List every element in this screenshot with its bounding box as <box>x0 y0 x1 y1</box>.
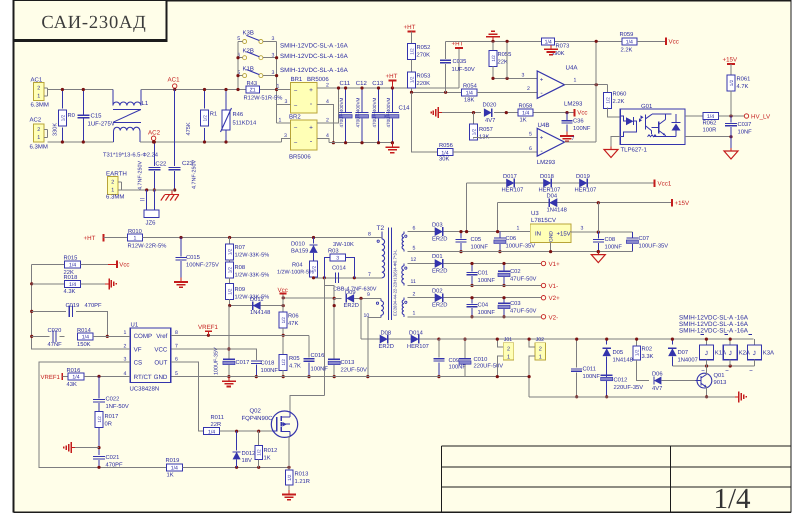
wire U3 out up to +15V row <box>597 203 599 232</box>
resistor R015 22K <box>32 263 65 265</box>
svg-text:R073: R073 <box>556 43 570 50</box>
capacitor C05 100NF <box>460 232 462 239</box>
svg-text:47UF-50V: 47UF-50V <box>510 308 537 315</box>
capacitor C021 470PF <box>93 455 105 457</box>
wire U3 out row <box>571 231 632 233</box>
wire relay left feed column <box>237 42 239 90</box>
ground left of D020 row (red) <box>438 112 442 114</box>
svg-text:1/2W-33K-5%: 1/2W-33K-5% <box>235 272 270 279</box>
svg-text:+: + <box>540 136 544 142</box>
capacitor C017 100UF-35V <box>228 306 230 359</box>
resistor R062 100R <box>703 113 719 120</box>
node V2+ <box>541 296 545 300</box>
svg-text:47NF: 47NF <box>48 342 63 348</box>
svg-text:K3B: K3B <box>243 30 254 37</box>
svg-text:100NF: 100NF <box>573 125 591 132</box>
svg-text:R062: R062 <box>703 120 717 127</box>
resistor R053 220K <box>411 60 413 73</box>
resistor R055 22K <box>492 41 494 51</box>
resistor R02 3.3K <box>636 339 638 346</box>
svg-text:C011: C011 <box>583 366 596 373</box>
svg-text:C04: C04 <box>478 302 489 309</box>
svg-text:R04: R04 <box>292 262 303 269</box>
svg-text:470PF: 470PF <box>85 302 103 309</box>
svg-text:10NF: 10NF <box>738 129 753 136</box>
wire R053 junction down to R056 row <box>412 92 438 152</box>
svg-text:10: 10 <box>364 313 370 319</box>
svg-text:1/2: 1/2 <box>606 97 611 104</box>
svg-text:9: 9 <box>367 292 370 298</box>
capacitor C015 100NF-275V <box>180 238 182 257</box>
svg-text:GND: GND <box>549 231 555 243</box>
svg-text:V1-: V1- <box>549 283 559 290</box>
svg-text:D014: D014 <box>409 329 424 336</box>
svg-text:100NF: 100NF <box>311 366 329 373</box>
capacitor C15 1UF-275V <box>82 90 84 116</box>
svg-text:1N4148: 1N4148 <box>613 357 633 364</box>
svg-text:САИ-230АД: САИ-230АД <box>41 13 146 33</box>
svg-text:R053: R053 <box>417 73 431 80</box>
svg-text:511KD14: 511KD14 <box>233 121 258 127</box>
wire U4B pin5 row <box>474 137 538 140</box>
svg-text:3: 3 <box>272 70 275 76</box>
svg-text:R056: R056 <box>439 142 453 149</box>
svg-text:470UF-400VM: 470UF-400VM <box>386 97 391 127</box>
svg-text:22K: 22K <box>498 59 508 66</box>
capacitor C08 100NF <box>597 232 599 238</box>
resistor R08 1/2W-33K-5% <box>229 260 231 263</box>
resistor R1 475K <box>204 90 206 109</box>
svg-text:L1: L1 <box>142 100 149 107</box>
power Vcc at R015 <box>108 263 117 265</box>
svg-text:1K: 1K <box>264 456 271 462</box>
zener D020 4V7 <box>484 108 492 116</box>
wire U4A pin2 row <box>477 91 537 93</box>
svg-text:K3A: K3A <box>763 350 774 357</box>
svg-text:2: 2 <box>507 346 510 352</box>
node V1- <box>541 283 545 287</box>
svg-text:C013: C013 <box>341 359 355 366</box>
svg-text:D04: D04 <box>547 192 558 199</box>
svg-text:1/2: 1/2 <box>491 55 496 62</box>
svg-text:1: 1 <box>517 226 520 232</box>
wire relay coil bottom row <box>672 365 754 367</box>
svg-text:3: 3 <box>522 72 525 78</box>
svg-text:6: 6 <box>175 356 178 362</box>
svg-text:22UF-50V: 22UF-50V <box>341 367 368 374</box>
resistor R05 4.7K <box>279 354 287 370</box>
svg-text:1: 1 <box>279 117 282 123</box>
svg-text:EC2834-44-22-22H13(6)4-Ф0.7*3-: EC2834-44-22-22H13(6)4-Ф0.7*3-L <box>392 249 397 316</box>
wire BR1 pin2 to +HT rail <box>317 87 459 89</box>
svg-text:R061: R061 <box>737 76 751 83</box>
capacitor C012 220UF-35V <box>601 374 613 376</box>
capacitor C14 470UF-400VM <box>391 88 393 113</box>
svg-text:~: ~ <box>294 102 298 109</box>
svg-text:VF: VF <box>134 347 142 354</box>
svg-text:J: J <box>753 350 756 357</box>
wire T2 pin11 row <box>408 285 542 287</box>
capacitor C019 470PF <box>32 310 66 312</box>
wire T2 pin6 row / D03 input <box>408 231 531 233</box>
ground above R055 (red) <box>492 37 494 42</box>
svg-text:HER107: HER107 <box>575 187 597 194</box>
wire T2 pin7 row <box>314 277 382 279</box>
svg-text:7: 7 <box>175 343 178 349</box>
svg-text:1.21R: 1.21R <box>295 478 310 485</box>
svg-text:4.7NF-250V: 4.7NF-250V <box>192 160 198 189</box>
svg-text:1/2: 1/2 <box>228 266 233 273</box>
svg-text:OUT: OUT <box>154 360 167 367</box>
svg-text:D018: D018 <box>540 173 554 180</box>
svg-text:LM293: LM293 <box>537 159 556 166</box>
resistor R073 390K <box>542 38 555 45</box>
svg-text:4.3K: 4.3K <box>64 288 76 295</box>
svg-text:11: 11 <box>411 279 416 285</box>
svg-text:FQP4N90C: FQP4N90C <box>242 415 274 422</box>
svg-text:100NF: 100NF <box>478 309 496 316</box>
svg-text:D010: D010 <box>291 241 305 248</box>
svg-text:1: 1 <box>277 84 280 90</box>
svg-text:D03: D03 <box>432 221 443 228</box>
zener D012 18V <box>236 431 238 450</box>
svg-text:18V: 18V <box>242 457 252 464</box>
capacitor C07 100UF-35V <box>631 232 633 237</box>
wire D011 row <box>230 305 284 307</box>
wire jog to Vcc column <box>324 285 334 298</box>
svg-text:1/2: 1/2 <box>409 76 414 83</box>
wire T2 pin12 row <box>408 263 542 265</box>
svg-text:2: 2 <box>37 127 40 133</box>
svg-text:ER2D: ER2D <box>432 236 447 243</box>
svg-text:470PF: 470PF <box>106 462 124 469</box>
svg-text:D011: D011 <box>250 296 263 303</box>
svg-text:D019: D019 <box>576 173 590 180</box>
svg-text:6.3MM: 6.3MM <box>30 144 48 151</box>
svg-text:1/4: 1/4 <box>69 282 76 288</box>
resistor R06 47K <box>279 312 287 328</box>
svg-text:ER2D: ER2D <box>432 302 447 309</box>
svg-text:4.7NF-250V: 4.7NF-250V <box>138 161 144 190</box>
svg-text:R46: R46 <box>233 111 244 118</box>
power +HT at C13 <box>391 81 393 89</box>
svg-text:SMIH-12VDC-SL-A -16A: SMIH-12VDC-SL-A -16A <box>280 43 349 50</box>
svg-text:2: 2 <box>326 82 329 88</box>
svg-text:150K: 150K <box>77 341 91 348</box>
svg-text:R05: R05 <box>289 355 300 362</box>
node AC1 <box>173 84 177 88</box>
svg-text:2: 2 <box>37 86 40 92</box>
svg-text:6: 6 <box>529 146 532 152</box>
resistor R059 2.2K <box>622 38 637 45</box>
svg-text:3.3K: 3.3K <box>642 353 654 360</box>
svg-text:CS: CS <box>134 360 143 367</box>
svg-text:7: 7 <box>572 136 575 142</box>
svg-text:1/4: 1/4 <box>522 111 529 117</box>
svg-text:R060: R060 <box>613 91 627 98</box>
svg-text:Z1: Z1 <box>250 88 256 94</box>
svg-text:1/2: 1/2 <box>287 474 292 481</box>
svg-text:C035: C035 <box>453 58 467 65</box>
capacitor C013 22UF-50V <box>333 298 335 358</box>
svg-text:2: 2 <box>527 86 530 92</box>
svg-text:330K: 330K <box>53 123 59 136</box>
relay coil K3A <box>753 339 755 345</box>
svg-text:5: 5 <box>413 245 416 251</box>
wire opto emitter out to C037 column <box>685 136 731 138</box>
svg-text:2.2K: 2.2K <box>621 47 633 54</box>
svg-text:VREF1: VREF1 <box>41 374 61 381</box>
svg-text:100NF: 100NF <box>605 244 623 251</box>
svg-text:C021: C021 <box>106 454 120 461</box>
svg-text:1/2W-33K-5%: 1/2W-33K-5% <box>235 252 270 259</box>
wire AC1 row from connector to L1 <box>48 89 113 91</box>
ground below R013 (red) <box>288 490 290 495</box>
wire OUT down to gate row <box>171 362 204 431</box>
svg-text:R02: R02 <box>642 346 653 353</box>
T2 primary winding 8-7 <box>381 232 383 239</box>
svg-text:~: ~ <box>294 140 298 147</box>
diode D09 ER2D <box>334 297 341 299</box>
relay coil K2A <box>729 339 731 345</box>
resistor R07 1/2W-33K-5% <box>229 238 231 245</box>
T2 secondary winding 12-11 <box>403 264 405 266</box>
wire D020 row <box>442 112 481 114</box>
wire opto cathode to ground <box>611 137 620 147</box>
capacitor C12 470UF-400VM <box>361 88 363 113</box>
svg-text:100UF-35V: 100UF-35V <box>506 243 536 250</box>
svg-text:3W-10K: 3W-10K <box>333 241 354 248</box>
svg-text:C01: C01 <box>478 270 489 277</box>
svg-text:12: 12 <box>411 257 417 263</box>
ground below C037 (red triangle) <box>730 148 732 151</box>
svg-text:1/4: 1/4 <box>69 263 76 269</box>
diode D03 ER2D <box>435 227 443 236</box>
wire Q01 emitter to gnd rail <box>706 387 708 397</box>
svg-text:1/4: 1/4 <box>626 39 633 45</box>
svg-text:C11: C11 <box>340 80 351 87</box>
svg-text:1/4: 1/4 <box>713 483 751 515</box>
svg-text:VCC: VCC <box>154 347 168 354</box>
svg-text:J: J <box>729 350 732 357</box>
diode D01 ER2D <box>435 259 443 268</box>
capacitor C22 4.7NF-250V <box>153 142 155 166</box>
svg-text:9013: 9013 <box>714 379 727 386</box>
svg-text:R011: R011 <box>211 414 224 421</box>
svg-text:D017: D017 <box>503 173 517 180</box>
svg-text:22R: 22R <box>211 421 222 428</box>
svg-text:1/4: 1/4 <box>208 429 215 435</box>
T2 secondary winding 6-5 <box>403 232 405 234</box>
svg-text:1/2: 1/2 <box>409 48 414 55</box>
ground right of R018 (red) <box>105 283 109 285</box>
svg-text:C08: C08 <box>605 236 616 243</box>
svg-text:R058: R058 <box>519 103 533 110</box>
capacitor C020 47NF <box>32 335 50 337</box>
ground below C14 (red) <box>391 143 393 148</box>
svg-text:R012: R012 <box>264 447 278 454</box>
svg-text:1: 1 <box>413 311 416 317</box>
svg-text:1/2: 1/2 <box>281 359 286 366</box>
power Vcc1 <box>654 179 656 187</box>
T2 aux winding 9-10 <box>380 299 382 301</box>
svg-text:Vcc: Vcc <box>577 110 587 117</box>
svg-text:U4B: U4B <box>538 122 550 129</box>
svg-text:~: ~ <box>294 87 298 94</box>
power +HT feeding R052 <box>408 31 416 33</box>
svg-text:30K: 30K <box>439 156 449 163</box>
wire +HT rail right end up to +HT bar <box>458 48 460 88</box>
svg-text:V1+: V1+ <box>549 261 561 268</box>
svg-text:1/2: 1/2 <box>281 317 286 324</box>
svg-text:4: 4 <box>326 133 329 139</box>
svg-text:100NF: 100NF <box>471 244 489 251</box>
resistor R060 2.2K <box>607 85 609 94</box>
svg-text:R08: R08 <box>235 264 246 271</box>
svg-text:R055: R055 <box>498 51 512 58</box>
capacitor C02 47UF-50V <box>503 264 505 271</box>
wire R073 tap down to pin3 row <box>506 41 508 78</box>
svg-text:VREF1: VREF1 <box>198 324 219 331</box>
svg-text:1/2: 1/2 <box>257 449 262 456</box>
svg-text:ER2D: ER2D <box>379 343 394 350</box>
svg-text:1/4: 1/4 <box>545 39 552 45</box>
svg-text:Vcc: Vcc <box>669 39 679 46</box>
wire T2 pin10 to gnd rail <box>368 318 381 377</box>
node V1+ <box>541 261 545 265</box>
page border frame <box>13 0 15 513</box>
svg-text:C012: C012 <box>614 377 628 384</box>
svg-text:C014: C014 <box>332 264 347 271</box>
svg-text:J: J <box>705 350 708 357</box>
svg-text:C05: C05 <box>471 236 482 243</box>
svg-text:AC1: AC1 <box>168 77 181 84</box>
svg-text:C36: C36 <box>573 118 584 125</box>
wire snubber to drain column <box>323 278 325 396</box>
svg-text:D05: D05 <box>613 349 624 356</box>
svg-text:100R: 100R <box>703 127 717 134</box>
svg-text:IN: IN <box>535 231 541 238</box>
svg-text:Vref: Vref <box>156 333 167 340</box>
svg-text:R12W-22R-5%: R12W-22R-5% <box>128 242 167 249</box>
resistor R04 1/2W-100R-5% <box>310 261 318 277</box>
svg-text:HV_LV: HV_LV <box>751 113 771 120</box>
svg-text:3: 3 <box>284 133 287 139</box>
svg-text:4V7: 4V7 <box>485 118 495 124</box>
svg-text:BR5006: BR5006 <box>289 153 311 160</box>
svg-text:1: 1 <box>574 78 577 84</box>
svg-text:D07: D07 <box>678 349 689 356</box>
svg-text:GND: GND <box>154 374 168 381</box>
resistor R013 1.21R <box>285 470 293 485</box>
T2 core <box>387 228 389 321</box>
svg-text:1/2W-100R-5%: 1/2W-100R-5% <box>277 270 314 276</box>
diode D010 BA159 <box>313 238 315 244</box>
resistor R057 13K <box>473 113 475 126</box>
chassis ground (red) <box>171 191 173 195</box>
svg-text:R059: R059 <box>620 31 634 38</box>
svg-text:+HT: +HT <box>386 73 398 80</box>
svg-text:AC2: AC2 <box>30 117 42 124</box>
capacitor C04 100NF <box>471 298 473 304</box>
svg-text:T2: T2 <box>377 225 385 232</box>
wire BR2 pin2 to +HT rail <box>317 88 339 123</box>
power Vcc at R058 row <box>574 109 576 117</box>
svg-text:SMIH-12VDC-SL-A -16A: SMIH-12VDC-SL-A -16A <box>280 53 349 60</box>
svg-text:BA159: BA159 <box>291 248 308 255</box>
wire BR2 pin3 from AC2 row <box>282 139 291 143</box>
ground below U3 (red triangle) <box>597 252 599 255</box>
svg-text:1/4: 1/4 <box>82 335 89 341</box>
capacitor C03 47UF-50V <box>503 298 505 303</box>
svg-text:5: 5 <box>175 371 178 377</box>
svg-text:C09: C09 <box>449 357 460 364</box>
svg-text:100UF-35V: 100UF-35V <box>214 347 220 375</box>
svg-text:4V7: 4V7 <box>652 386 662 392</box>
svg-text:270K: 270K <box>417 52 431 59</box>
spark gap JZ6 <box>146 190 148 210</box>
resistor R061 4.7K <box>730 64 732 76</box>
svg-text:R06: R06 <box>288 313 299 320</box>
svg-text:U3: U3 <box>531 210 539 217</box>
svg-text:220UF-50V: 220UF-50V <box>474 363 504 370</box>
wire left feedback bus <box>32 264 131 349</box>
wire -HT rail <box>329 142 392 144</box>
capacitor C06 100UF-35V <box>499 232 501 238</box>
wire D08 row <box>361 338 439 340</box>
svg-text:R052: R052 <box>417 44 431 51</box>
svg-text:BR1: BR1 <box>291 76 303 83</box>
svg-text:1UF-275V: 1UF-275V <box>88 121 115 128</box>
svg-text:1UF-50V: 1UF-50V <box>452 66 475 73</box>
node AC2 <box>151 136 155 140</box>
svg-text:100UF-35V: 100UF-35V <box>639 243 669 250</box>
wire T2 pin1 row <box>408 316 542 318</box>
ground right end of rail (red) <box>735 396 739 398</box>
svg-text:D06: D06 <box>652 371 663 378</box>
wire R054 row <box>412 91 462 93</box>
resistor R018 4.3K <box>32 283 65 285</box>
svg-text:2: 2 <box>111 180 114 186</box>
svg-text:1/4: 1/4 <box>171 465 178 471</box>
svg-text:Q02: Q02 <box>250 408 262 415</box>
svg-text:COMP: COMP <box>134 333 153 340</box>
svg-text:+HT: +HT <box>404 24 416 31</box>
svg-text:+: + <box>540 78 544 84</box>
svg-text:Vcc1: Vcc1 <box>658 180 672 187</box>
svg-text:3: 3 <box>336 255 339 261</box>
svg-text:1/2: 1/2 <box>471 128 476 135</box>
power +15V feeding R061 <box>727 63 735 65</box>
svg-text:100NF: 100NF <box>478 277 496 284</box>
wire AC2 row from L1 to BR2 <box>140 141 282 143</box>
diode D04 1N4148 <box>549 198 557 207</box>
svg-text:1: 1 <box>134 236 137 242</box>
svg-text:TLP627-1: TLP627-1 <box>621 146 648 153</box>
wire Vcc1 row left drop <box>466 183 468 232</box>
transistor Q01 9013 <box>697 373 712 388</box>
svg-text:+: + <box>309 124 313 131</box>
svg-text:J02: J02 <box>536 337 544 343</box>
svg-text:R1: R1 <box>210 112 217 118</box>
wire +15V row left drop <box>497 203 499 232</box>
capacitor C01 100NF <box>471 264 473 272</box>
resistor R012 1K <box>258 431 260 445</box>
svg-text:U4A: U4A <box>566 65 579 72</box>
diode D06 4V7 <box>654 377 661 385</box>
svg-text:RT/CT: RT/CT <box>134 374 152 381</box>
svg-text:ER2D: ER2D <box>432 268 447 275</box>
